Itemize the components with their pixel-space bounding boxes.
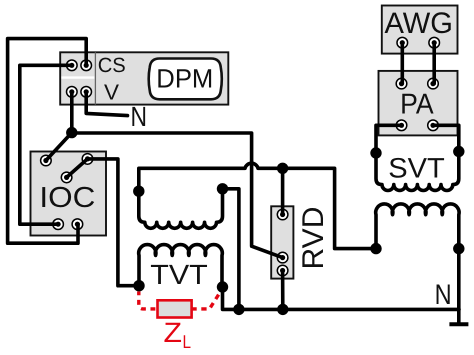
RVD box — [271, 206, 293, 278]
wire V-right to N stub — [86, 92, 127, 116]
svg-text:DPM: DPM — [156, 64, 213, 94]
terminal IOC top-right — [82, 154, 93, 165]
load Z_L red dashed lead right — [191, 289, 222, 309]
junction TVT primary right — [217, 183, 228, 194]
wire IOC top-right down to TVT secondary left — [88, 159, 140, 286]
AWG box — [382, 6, 458, 54]
wire CS-right to outer left rail to IOC bottom-right — [8, 39, 87, 244]
junction SVT primary right — [453, 146, 464, 157]
DPM white separator — [61, 76, 94, 78]
wire TVT primary right down to bottom rail — [223, 189, 239, 310]
terminal PA top-right — [428, 78, 439, 89]
terminal RVD bottom — [277, 265, 288, 276]
junction SVT secondary left — [370, 243, 381, 254]
terminal RVD top — [277, 209, 288, 220]
wire node to IOC top-left — [46, 133, 72, 161]
IOC box — [31, 152, 107, 236]
svg-text:TVT: TVT — [150, 259, 208, 290]
terminal DPM V left — [67, 87, 78, 98]
RVD top lead — [281, 168, 285, 214]
terminal DPM V right — [81, 87, 92, 98]
junction SVT primary left — [370, 147, 381, 158]
load Z_L body — [158, 300, 192, 317]
terminal IOC bottom-right — [72, 219, 83, 230]
junction TVT primary left — [133, 186, 144, 197]
junction TVT secondary left — [133, 280, 144, 291]
TVT upper winding — [139, 189, 223, 228]
DPM display bezel — [149, 59, 222, 100]
svg-text:CS: CS — [98, 54, 126, 77]
svg-text:Z: Z — [164, 317, 183, 348]
terminal PA bottom-right — [428, 120, 439, 131]
wire TVT primary left up, across with hop, down to SVT secondary left — [139, 163, 376, 248]
wire AWG left to PA — [400, 43, 404, 84]
svg-text:N: N — [435, 278, 452, 310]
PA box — [379, 71, 458, 135]
terminal AWG right — [429, 37, 440, 48]
neutral bar — [449, 322, 468, 326]
SVT primary winding with PA leads — [376, 125, 459, 190]
SVT secondary winding with neutral drop — [376, 204, 459, 324]
svg-text:V: V — [104, 80, 119, 105]
terminal DPM CS left — [67, 60, 78, 71]
DPM meter box — [60, 52, 228, 104]
terminal DPM CS right — [81, 60, 92, 71]
terminal AWG left — [397, 37, 408, 48]
terminal PA bottom-left — [396, 120, 407, 131]
terminal IOC middle — [61, 172, 72, 183]
junction SVT secondary right — [453, 243, 464, 254]
wire V-left down to node — [70, 92, 74, 133]
wire node right and down to RVD tap — [72, 133, 283, 258]
terminal center pins — [43, 40, 437, 273]
bottom rail — [223, 287, 460, 309]
svg-text:PA: PA — [400, 89, 434, 121]
svg-text:L: L — [182, 331, 191, 352]
terminal IOC bottom-left — [53, 219, 64, 230]
svg-text:SVT: SVT — [388, 151, 445, 183]
svg-text:AWG: AWG — [384, 7, 453, 40]
wire AWG right to PA — [432, 43, 436, 84]
junction RVD top — [277, 163, 288, 174]
junction RVD bottom — [277, 304, 288, 315]
terminal PA top-left — [396, 78, 407, 89]
DPM internal divider — [94, 52, 96, 104]
terminal RVD middle — [277, 252, 288, 263]
svg-text:RVD: RVD — [297, 207, 330, 270]
junction at DPM V-left node — [66, 127, 77, 138]
terminal IOC top-left — [41, 155, 52, 166]
svg-text:N: N — [130, 101, 147, 132]
svg-text:IOC: IOC — [39, 182, 95, 214]
wire CS-left to inner left rail to IOC bottom-left — [20, 65, 72, 224]
junction TVT secondary right — [217, 281, 228, 292]
IOC switch blade — [67, 159, 88, 178]
TVT lower winding — [139, 245, 223, 287]
junction bottom rail at TVT — [233, 304, 244, 315]
RVD bottom lead — [281, 271, 285, 310]
load Z_L red dashed lead left — [139, 292, 158, 309]
